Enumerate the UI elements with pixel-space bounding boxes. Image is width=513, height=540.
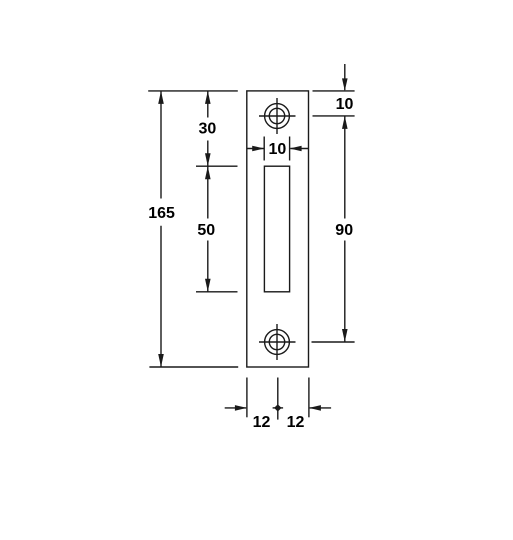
svg-text:10: 10 [269, 141, 287, 158]
svg-text:30: 30 [199, 120, 217, 137]
svg-text:10: 10 [336, 96, 354, 113]
svg-text:50: 50 [197, 222, 215, 239]
svg-text:12: 12 [287, 414, 305, 431]
svg-text:12: 12 [253, 414, 271, 431]
svg-text:165: 165 [148, 205, 175, 222]
svg-text:90: 90 [335, 222, 353, 239]
